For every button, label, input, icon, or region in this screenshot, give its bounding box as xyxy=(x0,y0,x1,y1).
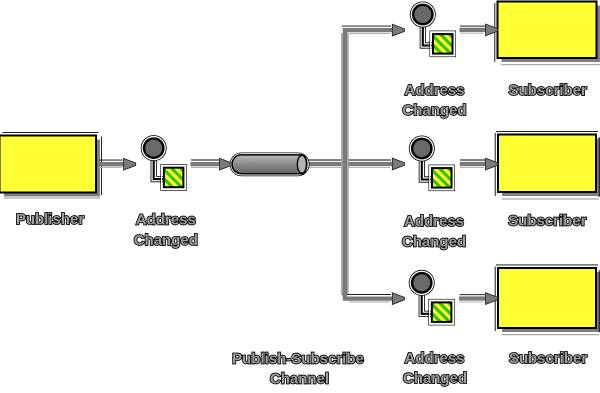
message icon M4 (bottom branch) xyxy=(409,270,455,325)
svg-text:Publisher: Publisher xyxy=(16,211,85,228)
wire trunk vertical with top and bottom branches xyxy=(341,33,343,295)
message icon M3 (middle branch) xyxy=(409,136,455,191)
subscriber box 3 xyxy=(498,268,596,328)
subscriber box 1 shadow xyxy=(502,6,600,63)
svg-text:Subscriber: Subscriber xyxy=(509,82,588,99)
channel cylinder end cap xyxy=(297,155,306,173)
subscriber box 2 ghost outline xyxy=(496,130,598,132)
svg-text:Subscriber: Subscriber xyxy=(508,213,587,230)
publisher box xyxy=(0,136,96,193)
svg-text:Changed: Changed xyxy=(402,102,466,119)
wire message M3 to subscriber 2 xyxy=(460,159,485,161)
arrowhead into subscriber 3 xyxy=(486,293,498,305)
svg-text:Subscriber: Subscriber xyxy=(509,350,588,367)
svg-text:Address: Address xyxy=(404,213,464,230)
arrowhead into channel xyxy=(220,158,232,170)
subscriber box 3 shadow xyxy=(502,272,600,332)
arrowhead middle branch xyxy=(392,158,404,170)
publisher box shadow xyxy=(4,140,100,197)
wire channel to fan-out arrow (middle branch) xyxy=(308,159,391,161)
arrowhead top branch xyxy=(392,24,404,36)
arrowhead into subscriber 2 xyxy=(486,158,498,170)
subscriber box 1 xyxy=(498,2,597,59)
svg-text:Changed: Changed xyxy=(134,232,198,249)
svg-text:Address: Address xyxy=(404,82,464,99)
wire message M1 to channel xyxy=(191,159,219,161)
subscriber box 2 shadow xyxy=(502,139,600,197)
channel cylinder ghost xyxy=(230,153,309,176)
svg-text:Changed: Changed xyxy=(402,234,466,251)
svg-text:Address: Address xyxy=(404,350,464,367)
channel cylinder body xyxy=(232,155,307,174)
message icon M1 (after publisher) xyxy=(141,135,187,190)
subscriber box 2 xyxy=(498,135,596,193)
wire message M2 to subscriber 1 xyxy=(460,25,485,27)
message icon M2 (top branch) xyxy=(410,2,456,57)
publisher box ghost outline xyxy=(3,132,99,134)
arrowhead bottom branch xyxy=(392,293,404,305)
svg-text:Address: Address xyxy=(136,212,196,229)
wire publisher to message M1 xyxy=(99,159,123,161)
wire message M4 to subscriber 3 xyxy=(460,294,486,296)
arrowhead into M1 xyxy=(124,158,136,170)
arrowhead into subscriber 1 xyxy=(486,24,498,36)
svg-text:Channel: Channel xyxy=(270,371,329,388)
subscriber box 3 ghost outline xyxy=(496,264,598,266)
svg-text:Publish-Subscribe: Publish-Subscribe xyxy=(232,351,364,368)
svg-text:Changed: Changed xyxy=(403,370,467,387)
